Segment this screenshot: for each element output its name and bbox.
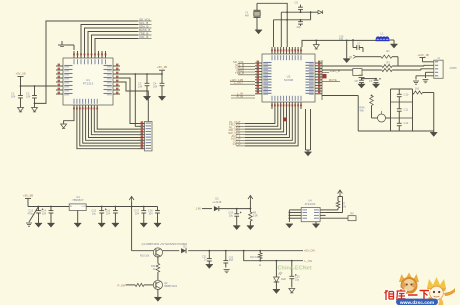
wire U2 bottom to ground <box>306 109 311 152</box>
wire filter block frame <box>358 89 434 131</box>
svg-text:CON5: CON5 <box>450 67 458 70</box>
net label stack below-left of U2 <box>228 120 245 146</box>
op-amp U1 audio processor PT2313 (QFP) <box>56 51 120 112</box>
power portal arrow above 1.8V junction <box>248 196 253 209</box>
capacitor C6 22p <box>297 20 303 29</box>
resistor R3 series lower <box>382 60 421 71</box>
wire U4 left pins to ground bus <box>289 210 297 222</box>
ground right of L1 <box>390 40 398 48</box>
wire input 1.8V port <box>349 55 370 59</box>
wire U1 bottom fan to connector stack <box>77 112 138 149</box>
svg-text:104: 104 <box>148 213 153 216</box>
ground under C20 <box>289 289 295 293</box>
wire audio pair upper <box>322 65 382 67</box>
ground earth under C22 <box>224 270 230 273</box>
svg-text:L1: L1 <box>380 32 384 36</box>
ground earth chassis <box>26 223 32 226</box>
wire from U1 right pin to connector top <box>120 82 148 122</box>
wire left rail to U1 pins <box>20 85 56 87</box>
wire jogs into connector J1 <box>416 65 434 79</box>
wire oscillator horizontal lower <box>274 12 311 20</box>
svg-text:IN: IN <box>349 55 352 59</box>
resistor R6 51R <box>249 209 258 226</box>
svg-text:104: 104 <box>138 85 143 89</box>
capacitor C22 104 on switch rail <box>223 251 233 268</box>
ground under filter right rail <box>430 131 437 137</box>
connector J1 CON5 <box>434 57 457 79</box>
erc marker red right of U2 <box>323 74 327 78</box>
svg-text:L_ON: L_ON <box>305 259 312 263</box>
net label L_ON <box>305 259 312 263</box>
diode D2 on rail <box>181 246 187 254</box>
capacitor C13 470uF/16V <box>27 207 43 224</box>
ground under R6 <box>247 226 254 230</box>
net labels left of U2 group3 <box>231 92 255 99</box>
ground under U3 <box>74 223 81 227</box>
ground earth near connector <box>413 81 419 84</box>
wire U1 right rail <box>120 73 163 75</box>
power portal arrow +5V mid rail <box>129 197 134 207</box>
svg-text:+12V: +12V <box>357 73 364 77</box>
svg-text:1.8V: 1.8V <box>196 207 202 211</box>
ground under C9 <box>372 84 379 88</box>
label C16 104 near ground tap <box>339 36 344 42</box>
power +5V_1B flag left of U1 <box>15 72 25 87</box>
svg-text:R10 10k: R10 10k <box>140 255 150 258</box>
svg-text:C11: C11 <box>404 108 409 112</box>
capacitor C1 104 <box>11 86 23 108</box>
ground under C3 <box>143 97 150 101</box>
capacitor C8 104 <box>355 79 364 85</box>
svg-text:C10: C10 <box>404 93 409 97</box>
svg-text:104: 104 <box>229 259 234 262</box>
net labels left of U2 <box>233 60 255 75</box>
capacitor C19 10u/50V <box>228 209 241 226</box>
svg-text:OUT: OUT <box>81 206 86 208</box>
watermark dzsc blue band <box>396 299 438 305</box>
ground bottom-left of U1 <box>61 124 67 128</box>
watermark dzsc red text (vector strokes) <box>385 289 430 300</box>
ground under C21 <box>206 265 213 269</box>
capacitor C20 10u <box>289 261 300 288</box>
op-amp U2 sound processor (QFP) <box>255 47 322 109</box>
ground small near connector 2 <box>423 80 429 83</box>
wire U1 bottom-left pin to ground <box>64 112 74 124</box>
wire U2 right vertical bus <box>321 60 323 100</box>
svg-text:104: 104 <box>26 95 31 99</box>
net label 1.8V <box>196 207 212 211</box>
ground under C14 <box>47 223 54 227</box>
svg-text:R1: R1 <box>386 49 390 53</box>
resistor R9 small right <box>348 213 356 221</box>
resistor R1 horizontal <box>370 49 398 66</box>
net label stack upper (MUTE/STBY/...) <box>138 17 152 39</box>
svg-text:104: 104 <box>106 213 111 216</box>
ground under U4 left bus <box>286 224 293 228</box>
svg-text:C8: C8 <box>355 79 359 83</box>
power +5V_1B flag right of U1 <box>157 65 167 74</box>
resistor R7 10k pullup <box>336 197 347 210</box>
svg-text:470u: 470u <box>27 213 33 216</box>
net label +5V_ON <box>304 249 315 253</box>
svg-text:+5V_ON: +5V_ON <box>304 249 315 253</box>
resistor R4A 40k vertical <box>360 95 374 118</box>
svg-text:40k: 40k <box>360 109 365 113</box>
wire from U1 right rail down <box>134 73 138 126</box>
wire oscillator horizontal upper <box>281 11 311 13</box>
capacitor C17 104 <box>134 207 146 224</box>
net labels left of U2 group2 <box>230 78 255 85</box>
voltage regulator U3 78M05 <box>69 195 86 223</box>
resistor R5 1k5 top of filter <box>413 87 434 95</box>
svg-text:VOL_B: VOL_B <box>139 35 148 39</box>
ground under C4 <box>158 97 165 101</box>
connector P1 bottom <box>138 121 152 151</box>
capacitor C2 104 <box>26 86 37 108</box>
watermark dzsc mascots <box>399 273 455 305</box>
svg-text:104: 104 <box>135 213 140 216</box>
net label P_ON input <box>117 283 125 287</box>
ground bar near U1 top <box>58 41 74 50</box>
svg-text:104: 104 <box>11 95 16 99</box>
capacitor C3 104 <box>138 74 149 97</box>
svg-text:51R: 51R <box>253 215 258 218</box>
svg-text:www.dzsc.com: www.dzsc.com <box>399 300 434 305</box>
label Q1 switch line <box>142 242 188 246</box>
transistor Q1 PNP <box>153 248 162 264</box>
wire main 5V rail <box>28 206 158 208</box>
capacitor C11 103 <box>397 102 409 118</box>
crystal Y1 <box>245 3 261 30</box>
wire U4 right pins <box>326 210 348 218</box>
svg-text:LL4148: LL4148 <box>213 200 222 204</box>
ground under Q2 <box>154 290 161 302</box>
svg-text:C12: C12 <box>404 121 409 125</box>
svg-text:104: 104 <box>339 38 344 41</box>
trimmer VR1 circle <box>372 111 391 122</box>
resistor R2 series upper <box>382 64 424 67</box>
svg-text:C5: C5 <box>295 0 299 4</box>
capacitor C18 104 <box>148 207 160 224</box>
capacitor C15 10u <box>91 207 106 224</box>
ground under C8 <box>358 84 365 88</box>
ground under C18 <box>154 223 161 227</box>
ground under C13 <box>35 223 42 227</box>
capacitor C21 1n on switch rail <box>202 251 212 265</box>
wire to inductor L1 <box>302 40 377 48</box>
svg-text:+5V_5B: +5V_5B <box>23 193 33 197</box>
ground under Y1 <box>255 30 262 34</box>
capacitor C9 10u <box>369 78 381 84</box>
svg-text:P_ON: P_ON <box>117 283 125 287</box>
svg-text:CD_R: CD_R <box>233 142 241 146</box>
wire U2 bottom fan <box>245 109 298 146</box>
ground under C1 <box>18 108 24 112</box>
power portal arrow right of oscillator <box>311 10 323 14</box>
svg-text:104: 104 <box>42 213 47 216</box>
wire osc to U2 pins <box>274 12 282 47</box>
wire from U1 right pin down 2 <box>120 78 138 124</box>
svg-text:+12C_1B: +12C_1B <box>417 53 428 57</box>
power +12C_1B flag at connector <box>417 53 433 62</box>
power portal arrow above pullups <box>338 190 343 197</box>
net label +12C right of U2 <box>322 69 340 73</box>
resistor R11 1k base <box>151 263 160 280</box>
svg-text:U4: U4 <box>308 199 312 203</box>
power +12V flag filter <box>357 73 365 78</box>
watermark China-ECNet green <box>278 266 312 272</box>
svg-text:10u: 10u <box>295 279 300 282</box>
svg-text:+5V_1B: +5V_1B <box>15 72 25 76</box>
wire filter rail <box>362 78 377 80</box>
transistor Q2 NPN <box>153 280 177 289</box>
capacitor C12 10u <box>397 118 409 131</box>
component box on audio line <box>353 69 362 76</box>
svg-text:1k5: 1k5 <box>415 87 420 91</box>
ground under C15 <box>98 223 105 227</box>
inductor L1 (blue) <box>376 32 390 41</box>
led D3 <box>274 261 286 290</box>
svg-text:SC608: SC608 <box>284 78 294 82</box>
resistor R13 10k <box>250 251 262 267</box>
ground open arrow under L1 wire <box>313 40 319 49</box>
wire U1 top fan to net labels <box>35 21 138 103</box>
diode D1 LL4148 <box>213 197 252 212</box>
ground below U2 verticals <box>304 152 311 156</box>
svg-text:C9: C9 <box>369 79 373 83</box>
ground under U4 gnd pin <box>312 222 319 229</box>
capacitor C7 near top right <box>352 39 363 52</box>
net label MUTE right of U2 <box>322 78 340 82</box>
svg-text:+5V_1B: +5V_1B <box>157 65 167 69</box>
wire switch output rail <box>132 250 303 252</box>
svg-text:R3: R3 <box>386 60 390 64</box>
power +5V_5B flag bottom left <box>23 193 33 206</box>
resistor R12 input <box>126 283 154 286</box>
erc marker red below U2 <box>283 118 287 122</box>
wire audio pair lower <box>322 69 382 71</box>
wire +5V feed down to switch <box>131 207 133 251</box>
capacitor C5 22p <box>295 0 303 12</box>
capacitor C16 104 <box>105 207 117 224</box>
wire L_ON branch <box>244 251 303 262</box>
svg-text:C7: C7 <box>357 42 361 46</box>
ground right of U2 (from L1 wire) <box>343 40 350 63</box>
ground under C16 <box>112 223 119 227</box>
label R10 10k <box>140 255 150 258</box>
ground under C2 <box>32 108 38 112</box>
ic U4 AT24C02 eeprom <box>296 199 326 222</box>
svg-text:104: 104 <box>153 85 158 89</box>
svg-text:AT24C02: AT24C02 <box>305 202 316 206</box>
wire crystal top to caps <box>257 3 287 47</box>
svg-text:10u: 10u <box>229 215 234 218</box>
capacitor C10 2n2 <box>397 89 409 102</box>
wire chassis diagonal <box>29 207 39 223</box>
ground under led D3 <box>273 290 280 294</box>
ground under C17 <box>140 223 147 227</box>
capacitor C14 104 <box>41 207 53 224</box>
svg-text:10u: 10u <box>92 213 97 216</box>
svg-text:MMBT4401: MMBT4401 <box>164 285 178 288</box>
svg-text:China-ECNet: China-ECNet <box>278 266 312 272</box>
wire U2 bus to filter rail <box>322 95 358 97</box>
svg-text:78M05CT: 78M05CT <box>72 198 84 202</box>
svg-text:LED: LED <box>281 278 286 281</box>
capacitor C4 104 <box>153 74 164 97</box>
svg-text:PT2313: PT2313 <box>83 82 94 86</box>
svg-text:4M: 4M <box>245 14 249 18</box>
svg-text:Q1 MMBT4403 +5V MAIN/SW POWER: Q1 MMBT4403 +5V MAIN/SW POWER <box>142 242 188 246</box>
resistor R8 wire pullup join <box>338 197 343 213</box>
ground under C19 <box>233 226 240 230</box>
